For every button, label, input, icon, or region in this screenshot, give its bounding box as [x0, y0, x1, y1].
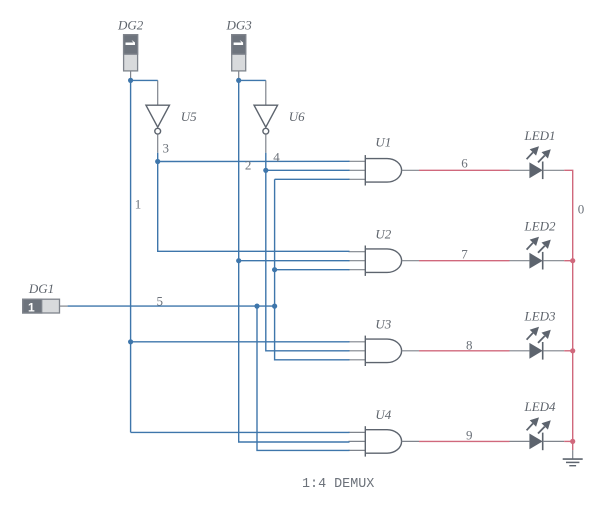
AND gate U2 [349, 246, 420, 276]
svg-text:U5: U5 [181, 109, 197, 124]
inverter U6 [254, 80, 278, 152]
junction DG2 output [128, 78, 133, 83]
junction rail at LED3 [570, 348, 575, 353]
switch DG3 [232, 35, 246, 81]
wire net1 DG2 junction to U5 input [131, 79, 158, 81]
svg-text:U2: U2 [375, 226, 391, 241]
svg-text:LED2: LED2 [524, 218, 557, 233]
junction net5 at U2 input3 [272, 267, 277, 272]
junction net1 at U3 input1 [128, 339, 133, 344]
svg-text:U3: U3 [375, 317, 391, 332]
svg-text:9: 9 [466, 427, 473, 442]
wire net3 to U1 input1 [158, 160, 350, 162]
switch DG2 [124, 35, 138, 81]
wire net3 vertical to U2 input1 [158, 162, 350, 252]
wire net5 to U1 input3 [275, 178, 350, 180]
inverter U5 [146, 80, 170, 152]
LED4 [510, 417, 565, 450]
wire net5 to U2 input3 [275, 269, 350, 271]
wire net0 LED2 to rail [564, 260, 573, 262]
svg-text:4: 4 [273, 150, 280, 165]
svg-text:1: 1 [28, 300, 35, 314]
junction DG3 output [236, 78, 241, 83]
wire net7 U2 output to LED2 [419, 260, 510, 262]
svg-text:DG3: DG3 [226, 18, 253, 33]
junction net5 riser [272, 304, 277, 309]
svg-text:3: 3 [163, 141, 170, 156]
wire net2 to U2 input2 [239, 260, 350, 262]
switch DG1 [23, 299, 68, 314]
svg-text:LED3: LED3 [524, 309, 557, 324]
junction net5 branch [254, 304, 259, 309]
wire net5 branch down to U4 input3 [257, 306, 350, 450]
svg-text:DG1: DG1 [28, 281, 54, 296]
svg-text:DG2: DG2 [117, 18, 144, 33]
AND gate U3 [349, 336, 420, 366]
AND gate U1 [349, 155, 420, 185]
svg-text:8: 8 [466, 338, 473, 353]
wire net0 LED1 to common rail [564, 170, 573, 450]
wire net1 vertical DG2 down [130, 80, 132, 432]
svg-text:U1: U1 [375, 134, 391, 149]
LED2 [510, 237, 565, 270]
wire net0 LED3 to rail [564, 350, 573, 352]
svg-text:0: 0 [578, 201, 585, 216]
wire net4 to U1 input2 [266, 169, 350, 171]
svg-text:2: 2 [245, 157, 252, 172]
wire net4 U6 output down to U3 input2 [266, 153, 350, 351]
wire net2 DG3 junction to U6 input [239, 79, 266, 81]
wire net1 to U4 input1 [131, 431, 350, 433]
LED3 [510, 327, 565, 360]
junction net2 at U2 input2 [236, 258, 241, 263]
wire net5 vertical riser [274, 179, 276, 306]
junction net4 at U1 input2 [263, 168, 268, 173]
svg-text:LED4: LED4 [524, 399, 557, 414]
junction U5 output node [155, 159, 160, 164]
svg-text:1: 1 [135, 197, 142, 212]
svg-text:U4: U4 [375, 407, 391, 422]
wire net5 down to U3 input3 [275, 306, 350, 360]
wire net3 U5 output down [157, 153, 159, 162]
wire net2 vertical DG3 down [239, 80, 350, 442]
wire net1 to U3 input1 [131, 341, 350, 343]
svg-text:5: 5 [157, 294, 164, 309]
svg-text:6: 6 [461, 156, 468, 171]
svg-text:7: 7 [461, 246, 468, 261]
LED1 [510, 146, 565, 179]
svg-text:1:4 DEMUX: 1:4 DEMUX [302, 477, 374, 492]
junction rail at LED4 [570, 439, 575, 444]
svg-text:U6: U6 [289, 109, 305, 124]
wire net9 U4 output to LED4 [419, 440, 510, 442]
AND gate U4 [349, 426, 420, 456]
wire net5 DG1 horizontal [68, 305, 275, 307]
wire net6 U1 output to LED1 [419, 169, 510, 171]
wire net8 U3 output to LED3 [419, 350, 510, 352]
junction rail at LED2 [570, 258, 575, 263]
ground [563, 450, 583, 466]
wire net0 LED4 to rail [564, 440, 573, 442]
svg-text:LED1: LED1 [524, 128, 556, 143]
